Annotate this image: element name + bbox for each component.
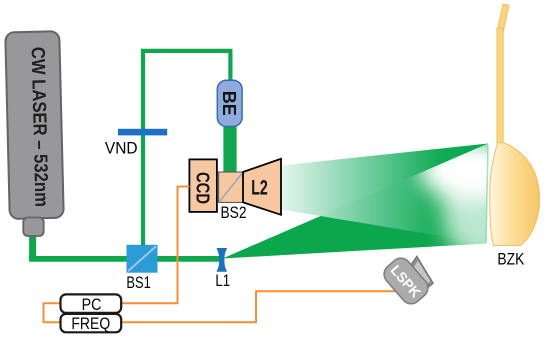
svg-text:BE: BE xyxy=(219,91,239,116)
svg-text:L1: L1 xyxy=(215,272,230,290)
svg-text:L2: L2 xyxy=(251,176,268,200)
svg-text:PC: PC xyxy=(82,296,102,314)
svg-text:BS2: BS2 xyxy=(221,204,247,222)
svg-text:VND: VND xyxy=(105,139,138,157)
svg-text:CW LASER – 532nm: CW LASER – 532nm xyxy=(27,47,52,207)
svg-text:FREQ: FREQ xyxy=(71,315,110,333)
svg-text:BS1: BS1 xyxy=(126,274,150,292)
svg-text:CCD: CCD xyxy=(193,172,213,204)
svg-text:BZK: BZK xyxy=(497,251,524,269)
